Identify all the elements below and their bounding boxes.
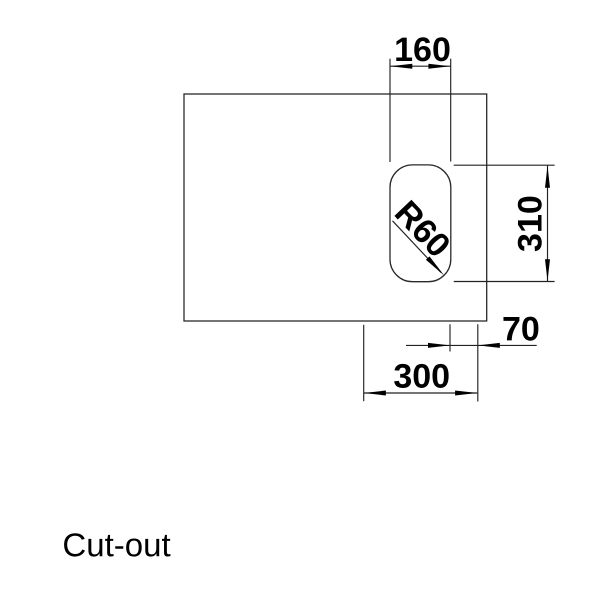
svg-text:70: 70 bbox=[502, 310, 540, 348]
dim 310 arrow down bbox=[545, 259, 550, 281]
dim 70 extension line left bbox=[449, 324, 451, 351]
dim 300 arrow right bbox=[455, 391, 477, 396]
dim 310 extension line bottom bbox=[454, 281, 555, 283]
dim 160 dimension line bbox=[390, 65, 451, 67]
svg-text:160: 160 bbox=[394, 31, 451, 69]
radius leader line bbox=[393, 221, 442, 273]
dim 70 dimension line bbox=[406, 344, 537, 346]
dim 310 extension line top bbox=[454, 164, 555, 166]
svg-text:310: 310 bbox=[511, 195, 549, 252]
svg-text:300: 300 bbox=[393, 358, 450, 396]
svg-text:R60: R60 bbox=[387, 194, 458, 265]
cut-out opening bbox=[390, 165, 451, 282]
dim 160 extension line left bbox=[389, 59, 391, 162]
dim 70 arrow pointing left bbox=[478, 343, 500, 348]
dim 160 extension line right bbox=[450, 59, 452, 162]
dim 70 arrow pointing right bbox=[428, 343, 450, 348]
dim 310 arrow up bbox=[545, 166, 550, 188]
dim 300 extension line left bbox=[363, 325, 365, 401]
dim 310 dimension line bbox=[547, 166, 549, 282]
dim 300 dimension line bbox=[364, 392, 478, 394]
worktop outline bbox=[184, 94, 487, 321]
dim 160 arrow left bbox=[390, 64, 412, 69]
svg-text:Cut-out: Cut-out bbox=[62, 526, 170, 563]
dim 300 arrow left bbox=[364, 391, 386, 396]
radius leader arrow bbox=[426, 256, 444, 275]
dim 70 / 300 shared extension line right bbox=[477, 324, 479, 401]
dim 160 arrow right bbox=[428, 64, 450, 69]
